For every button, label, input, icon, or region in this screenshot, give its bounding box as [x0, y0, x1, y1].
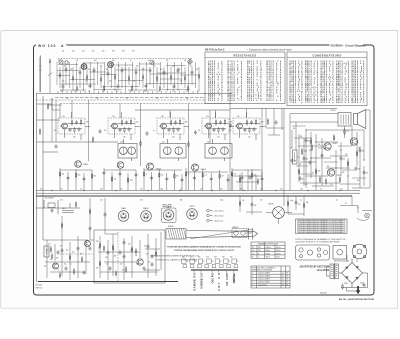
svg-text:100p: 100p — [290, 200, 293, 202]
IF transformer T3 — [160, 139, 186, 161]
legend — [207, 209, 213, 222]
svg-text:4.7k: 4.7k — [82, 50, 85, 52]
svg-text:BOBINE: BOBINE — [168, 226, 174, 228]
amp components — [291, 128, 366, 185]
voltage rows — [252, 272, 288, 287]
title SCHEMA Circuit Diagram — [330, 42, 367, 47]
CONDENSATEURS rows — [290, 60, 366, 104]
svg-text:473: 473 — [136, 264, 138, 266]
svg-text:9V: 9V — [286, 273, 288, 275]
svg-text:10k: 10k — [293, 128, 296, 130]
svg-text:5p: 5p — [336, 200, 338, 202]
svg-text:455 kc: 455 kc — [266, 257, 271, 259]
svg-text:6: 6 — [258, 253, 259, 255]
svg-text:222: 222 — [62, 81, 65, 83]
svg-text:10k: 10k — [133, 81, 136, 83]
svg-text:2SB75: 2SB75 — [166, 207, 171, 209]
svg-text:560: 560 — [102, 50, 105, 52]
tuner wires — [36, 62, 232, 98]
svg-text:280 kc: 280 kc — [266, 250, 271, 252]
svg-text:560: 560 — [109, 81, 112, 83]
left edge wires — [37, 94, 119, 283]
svg-text:6.8k: 6.8k — [122, 50, 125, 52]
svg-text:104: 104 — [126, 98, 129, 100]
comb ticks on tuner ground — [58, 91, 198, 94]
jack cluster parts — [51, 201, 77, 213]
svg-text:= Réf. châssis: = Réf. châssis — [214, 215, 224, 217]
svg-text:47k: 47k — [70, 69, 73, 71]
svg-text:47k: 47k — [88, 69, 91, 71]
svg-text:RELEVÉS ET TENSIONS: RELEVÉS ET TENSIONS — [252, 269, 273, 272]
socket marks — [163, 205, 171, 207]
transistor Q3 — [147, 163, 154, 170]
mains transformer — [327, 263, 339, 280]
ground bus — [36, 195, 352, 197]
switch strip 3 — [211, 271, 213, 273]
svg-text:330: 330 — [146, 254, 148, 256]
amp labels — [294, 131, 369, 181]
bl pot — [44, 246, 49, 257]
adapter labels — [344, 259, 364, 285]
svg-text:2.2k: 2.2k — [346, 131, 349, 133]
svg-text:222: 222 — [299, 164, 302, 166]
svg-text:6.8k: 6.8k — [82, 66, 85, 68]
bottom-left extra parts — [51, 245, 153, 278]
svg-text:22k: 22k — [342, 172, 345, 174]
svg-text:560: 560 — [166, 60, 169, 62]
svg-text:GAMMES DE RÉGLAGE: GAMMES DE RÉGLAGE — [258, 243, 279, 246]
svg-text:KB-100: KB-100 — [320, 292, 328, 294]
svg-text:222: 222 — [72, 252, 75, 254]
svg-text:68k: 68k — [80, 254, 82, 256]
svg-text:1,2: 1,2 — [282, 276, 284, 278]
svg-text:68k: 68k — [185, 122, 188, 124]
svg-text:TOUTES LES MESURES SONT FAITES: TOUTES LES MESURES SONT FAITES À 25°C SO… — [174, 249, 235, 252]
transistor bottom view 2SB75 — [163, 210, 174, 221]
AGC dash bus 1 — [36, 99, 205, 101]
svg-text:0.01: 0.01 — [200, 188, 203, 190]
template plate 2 — [333, 246, 347, 260]
svg-text:333: 333 — [345, 154, 348, 156]
amp wiring — [290, 110, 370, 191]
antenna rod 2 — [48, 59, 52, 93]
svg-text:333: 333 — [132, 50, 135, 52]
svg-text:4.7k: 4.7k — [124, 69, 127, 71]
svg-text:103: 103 — [156, 98, 159, 100]
IF transformer T2 — [118, 139, 137, 161]
svg-text:2k2: 2k2 — [190, 66, 192, 68]
svg-text:4.7k: 4.7k — [294, 161, 297, 163]
transistor bottom view 2SB77 — [187, 209, 198, 220]
svg-text:HP 8Ω: HP 8Ω — [331, 110, 337, 112]
bias labels — [62, 174, 257, 182]
svg-text:30p: 30p — [64, 264, 67, 266]
svg-text:560: 560 — [156, 81, 159, 83]
svg-text:560: 560 — [122, 270, 124, 272]
table RESISTANCES panel — [205, 52, 285, 104]
amp junction dots — [298, 129, 364, 176]
svg-text:47k: 47k — [237, 116, 240, 118]
svg-text:AJUSTER ENSUITE LE TRIMMER ANT: AJUSTER ENSUITE LE TRIMMER ANTENNE — [296, 241, 341, 244]
extra tuner jogs — [57, 63, 198, 90]
IF stage 1 — [58, 112, 90, 140]
svg-text:2k2: 2k2 — [207, 141, 210, 143]
svg-text:WG 100: WG 100 — [38, 44, 56, 48]
driver wiring — [232, 109, 284, 207]
svg-text:104: 104 — [96, 98, 99, 100]
filter resistor — [342, 283, 343, 289]
svg-text:560: 560 — [105, 257, 108, 259]
tall junction verticals — [72, 94, 262, 191]
center caption lines — [167, 246, 241, 252]
IF transformer T4 — [205, 139, 232, 161]
rod labels — [168, 226, 238, 229]
svg-text:68k: 68k — [144, 91, 147, 93]
svg-text:30p: 30p — [358, 169, 361, 171]
svg-text:47k: 47k — [260, 200, 263, 202]
svg-text:2k2: 2k2 — [102, 91, 104, 93]
battery label row — [182, 257, 233, 259]
svg-text:15k: 15k — [198, 130, 201, 132]
svg-text:VOL: VOL — [290, 148, 293, 150]
tuner components — [59, 67, 199, 91]
svg-text:104: 104 — [48, 244, 51, 246]
gang capacitor CV2 — [108, 62, 114, 68]
bias networks — [60, 168, 262, 191]
svg-text:2.2k: 2.2k — [204, 175, 207, 177]
svg-text:56k: 56k — [92, 50, 95, 52]
battery connector drawing — [232, 229, 252, 238]
switch strip 5 — [226, 271, 228, 273]
svg-text:68k: 68k — [229, 130, 232, 132]
svg-text:68k: 68k — [180, 81, 183, 83]
voltage table — [251, 266, 290, 288]
svg-text:POUR LE RÉGLAGE DE LA GAMME OC: POUR LE RÉGLAGE DE LA GAMME OC VOIR LA N… — [296, 238, 347, 241]
svg-text:333: 333 — [100, 188, 103, 190]
inter-stage parts — [92, 123, 232, 148]
svg-text:R62: R62 — [267, 100, 273, 102]
svg-text:= Masse com.: = Masse com. — [214, 220, 225, 222]
svg-text:0.01: 0.01 — [46, 250, 49, 252]
svg-text:330: 330 — [60, 91, 63, 93]
svg-text:104: 104 — [136, 122, 139, 124]
svg-text:R44: R44 — [228, 99, 234, 102]
svg-text:103: 103 — [114, 179, 117, 181]
svg-text:56k: 56k — [76, 60, 79, 62]
svg-text:4.7k: 4.7k — [60, 200, 63, 202]
svg-text:9V: 9V — [286, 282, 288, 284]
svg-text:560: 560 — [222, 257, 225, 259]
bus labels — [66, 98, 189, 100]
svg-text:330: 330 — [98, 248, 100, 250]
svg-text:104: 104 — [142, 69, 145, 71]
mid-left feeder parts — [61, 208, 106, 231]
transistor bottom view 2SA101 — [141, 211, 152, 222]
svg-text:0.01: 0.01 — [305, 184, 308, 186]
transistor Q5 — [324, 143, 331, 150]
bottom-left labels — [48, 241, 147, 266]
supply bus A — [36, 190, 360, 192]
svg-text:30p: 30p — [148, 262, 150, 264]
driver parts — [239, 118, 277, 185]
svg-text:330: 330 — [362, 151, 365, 153]
svg-text:104: 104 — [60, 188, 63, 190]
left small components — [39, 103, 57, 149]
svg-text:1,2: 1,2 — [282, 282, 284, 284]
AGC dash bus 2 — [60, 103, 232, 105]
under-bus labels — [60, 200, 338, 202]
svg-text:56k: 56k — [172, 66, 175, 68]
svg-text:333: 333 — [172, 91, 175, 93]
svg-text:22k: 22k — [298, 204, 301, 206]
svg-text:6V: 6V — [357, 208, 359, 210]
svg-text:1,2: 1,2 — [282, 273, 284, 275]
svg-text:30p: 30p — [64, 66, 67, 68]
svg-text:— Component values of printed: — Component values of printed circuit bo… — [246, 48, 292, 51]
bottom-left extra labels — [44, 248, 150, 272]
svg-text:100p: 100p — [120, 141, 124, 143]
svg-text:333: 333 — [73, 137, 76, 139]
dial lamp — [365, 213, 370, 218]
svg-text:222: 222 — [248, 137, 251, 139]
RESISTANCES rows — [208, 60, 282, 102]
svg-text:6.8k: 6.8k — [161, 116, 164, 118]
svg-text:6.8k: 6.8k — [214, 257, 217, 259]
svg-text:2SA101: 2SA101 — [143, 207, 149, 210]
svg-text:30p: 30p — [308, 141, 311, 143]
supply bus B — [36, 192, 360, 194]
bottom-left parts — [50, 240, 156, 275]
svg-text:C80: C80 — [247, 100, 253, 102]
switch strip 1 — [193, 271, 195, 273]
svg-text:5p: 5p — [320, 188, 322, 190]
svg-text:68k: 68k — [327, 166, 330, 168]
template plate 1 — [296, 245, 330, 260]
svg-text:100p: 100p — [130, 180, 133, 182]
svg-text:22k: 22k — [366, 173, 369, 175]
svg-text:560: 560 — [161, 175, 164, 177]
adapter output wiring — [341, 273, 368, 291]
decoupling components — [239, 200, 304, 209]
svg-text:ADAPTATEUR SECTEUR: ADAPTATEUR SECTEUR — [300, 266, 330, 269]
bridge rectifier — [339, 259, 368, 288]
switch contact row 2 — [183, 265, 238, 268]
notes box — [296, 219, 348, 234]
svg-text:OSC PO: OSC PO — [211, 273, 215, 283]
svg-text:222: 222 — [120, 188, 123, 190]
transistor Q7 — [327, 169, 334, 176]
svg-text:455 kc: 455 kc — [276, 247, 281, 249]
template plate 3 — [352, 244, 367, 259]
svg-text:68k: 68k — [94, 176, 97, 178]
svg-text:0.01: 0.01 — [130, 91, 133, 93]
svg-text:103: 103 — [72, 50, 75, 52]
svg-text:2k2: 2k2 — [186, 91, 188, 93]
svg-text:100p: 100p — [160, 188, 164, 190]
svg-text:18 Mc: 18 Mc — [266, 253, 271, 255]
svg-text:560: 560 — [148, 60, 151, 62]
svg-text:4.7k: 4.7k — [206, 257, 209, 259]
svg-text:2.2k: 2.2k — [234, 174, 237, 176]
template wires to adapter — [347, 255, 357, 262]
antenna — [39, 56, 41, 93]
svg-text:68k: 68k — [306, 202, 309, 204]
svg-text:330: 330 — [158, 91, 161, 93]
filter capacitor — [363, 283, 366, 288]
output transformer — [338, 113, 351, 127]
IF stage 5 — [233, 112, 265, 140]
svg-text:5p: 5p — [130, 250, 132, 252]
svg-text:0.01: 0.01 — [280, 188, 283, 190]
transistor Q9 — [85, 241, 91, 247]
svg-text:47k: 47k — [306, 159, 309, 161]
svg-text:2SA49: 2SA49 — [121, 207, 126, 210]
svg-text:1,2: 1,2 — [282, 285, 284, 287]
svg-text:10k: 10k — [144, 246, 147, 248]
svg-text:6.8k: 6.8k — [261, 122, 264, 124]
link wire row1 — [135, 109, 337, 111]
svg-text:56k: 56k — [44, 266, 46, 268]
svg-text:68k: 68k — [180, 200, 183, 202]
lamp wires — [340, 196, 372, 220]
svg-text:473: 473 — [221, 176, 224, 178]
svg-text:2.2k: 2.2k — [112, 116, 115, 118]
svg-text:104: 104 — [172, 137, 175, 139]
svg-text:FERRITE: FERRITE — [232, 227, 238, 229]
svg-text:2SB77: 2SB77 — [189, 206, 194, 208]
svg-text:1,2: 1,2 — [282, 279, 284, 281]
svg-text:560: 560 — [94, 60, 97, 62]
volume potentiometer — [293, 150, 300, 164]
svg-text:série 60/2M: série 60/2M — [317, 270, 329, 272]
svg-text:333: 333 — [66, 250, 68, 252]
svg-text:100p: 100p — [220, 200, 223, 202]
svg-text:A: A — [61, 44, 64, 48]
svg-text:4.7k: 4.7k — [206, 116, 209, 118]
svg-text:333: 333 — [56, 258, 58, 260]
svg-text:15k: 15k — [242, 200, 245, 202]
svg-text:GAMME PO: GAMME PO — [193, 273, 197, 291]
svg-text:47k: 47k — [254, 205, 257, 207]
switch contact row 1 — [182, 259, 239, 263]
trimmer C1 — [59, 60, 63, 64]
alignment table — [251, 242, 285, 259]
svg-text:2k2: 2k2 — [60, 246, 62, 248]
transistor Q4 — [192, 164, 199, 171]
svg-text:30p: 30p — [230, 257, 233, 259]
bottom-left box — [60, 230, 165, 283]
svg-text:= Voir schéma: = Voir schéma — [214, 210, 224, 212]
svg-text:POSITION DES ENROULEMENTS BOBI: POSITION DES ENROULEMENTS BOBINAGES ET C… — [167, 246, 241, 249]
svg-text:5p: 5p — [70, 264, 72, 266]
svg-text:1600 kc: 1600 kc — [266, 247, 272, 249]
svg-text:4.7k: 4.7k — [74, 91, 77, 93]
svg-text:104: 104 — [66, 98, 69, 100]
alignment rows — [252, 247, 281, 259]
svg-text:455 kc: 455 kc — [276, 253, 281, 255]
svg-text:68k: 68k — [112, 60, 115, 62]
transistor Q8 — [53, 263, 59, 269]
svg-text:5p: 5p — [188, 174, 190, 176]
svg-text:68k: 68k — [100, 66, 103, 68]
svg-text:9V: 9V — [286, 279, 288, 281]
svg-text:4.7k: 4.7k — [62, 116, 65, 118]
bus junctions — [51, 190, 340, 191]
svg-text:330: 330 — [182, 257, 185, 259]
svg-text:455 kc: 455 kc — [276, 250, 281, 252]
svg-text:150: 150 — [258, 250, 261, 252]
jack cluster — [36, 200, 80, 214]
gang capacitor CV1 — [81, 64, 87, 70]
svg-text:330: 330 — [96, 241, 99, 243]
svg-text:2SB77: 2SB77 — [337, 175, 342, 177]
svg-text:6.8k: 6.8k — [357, 180, 360, 182]
svg-text:RÉSISTANCES: RÉSISTANCES — [233, 54, 256, 57]
svg-text:SCHÉMA - Circuit Diagram: SCHÉMA - Circuit Diagram — [331, 43, 367, 48]
IF stage 2 — [108, 112, 140, 140]
svg-text:CONDENSATEURS: CONDENSATEURS — [312, 54, 341, 57]
polarity plug arrow — [356, 286, 361, 294]
svg-text:220Ω: 220Ω — [344, 283, 347, 285]
transistor Q6 — [350, 138, 357, 145]
table CONDENSATEURS panel — [287, 52, 367, 106]
svg-text:47k: 47k — [88, 91, 91, 93]
svg-text:KB P-03: KB P-03 — [36, 288, 43, 290]
svg-text:333: 333 — [96, 268, 98, 270]
svg-text:47k: 47k — [86, 122, 89, 124]
dial pointer diamond — [188, 59, 193, 65]
svg-text:KB 100 - ADAPTATEUR SECTEUR: KB 100 - ADAPTATEUR SECTEUR — [339, 298, 375, 301]
svg-text:2.2k: 2.2k — [260, 188, 263, 190]
svg-text:103: 103 — [220, 188, 223, 190]
svg-text:2SB187: 2SB187 — [268, 203, 274, 205]
svg-text:1k: 1k — [146, 174, 148, 176]
svg-text:10k: 10k — [318, 144, 321, 146]
ground line bottom — [38, 281, 178, 283]
svg-text:30p: 30p — [186, 98, 189, 100]
speaker — [354, 110, 366, 129]
svg-text:333: 333 — [123, 137, 126, 139]
svg-text:47k: 47k — [160, 69, 163, 71]
svg-text:6.8k: 6.8k — [58, 60, 61, 62]
transistor Q10 — [137, 259, 143, 265]
svg-text:520: 520 — [258, 247, 261, 249]
transistor Q1 — [75, 161, 82, 168]
svg-text:47k: 47k — [106, 69, 109, 71]
svg-text:56k: 56k — [40, 188, 43, 190]
bottom-left caption — [36, 284, 43, 289]
svg-text:4.7k: 4.7k — [330, 184, 333, 186]
svg-text:473: 473 — [190, 257, 193, 259]
svg-text:0.01: 0.01 — [300, 188, 303, 190]
svg-text:LP: LP — [345, 203, 347, 205]
svg-text:222: 222 — [162, 141, 165, 143]
trimmer C3 — [150, 60, 154, 64]
amp extra labels — [293, 128, 361, 186]
power transistor heatsink — [266, 207, 292, 224]
decoupling parts under bus — [240, 196, 304, 216]
svg-text:10k: 10k — [343, 159, 346, 161]
switch strip 2 — [200, 271, 202, 273]
switch strip 6 — [233, 271, 235, 273]
transistor bottom view 2SA49 — [118, 211, 129, 222]
svg-text:333: 333 — [112, 250, 115, 252]
tuning gang dash link — [58, 58, 192, 60]
svg-text:56k: 56k — [62, 50, 65, 52]
bottom-left wiring — [43, 232, 161, 280]
trimmer C2 — [65, 61, 68, 64]
svg-text:333: 333 — [140, 200, 143, 202]
